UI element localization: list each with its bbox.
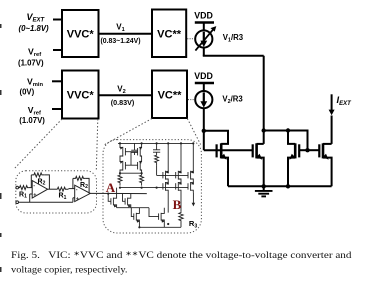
svg-text:Fig. 5. VIC: ∗VVC and ∗∗VC d: Fig. 5. VIC: ∗VVC and ∗∗VC denote the vo…: [11, 251, 352, 262]
svg-text:IEXT: IEXT: [337, 94, 353, 107]
M2 channel bar: [255, 143, 258, 158]
svg-text:+: +: [33, 193, 36, 199]
svg-text:R1: R1: [19, 191, 27, 199]
P row2 c1: [166, 182, 169, 184]
input stub Vref2: [52, 108, 62, 110]
M4 gate lead: [308, 149, 320, 151]
resistor R2b: [73, 176, 86, 180]
arrow head out current: [192, 203, 196, 207]
M1 source path: [221, 158, 228, 187]
svg-text:voltage copier, respectively.: voltage copier, respectively.: [11, 265, 128, 275]
out current arrow: [192, 193, 194, 204]
gate line row1: [157, 174, 189, 176]
opamp U2: [75, 185, 91, 201]
P row1 c2: [178, 170, 181, 172]
dotted link CS2: [188, 99, 195, 101]
zoom line VC left: [104, 119, 152, 146]
svg-text:VC**: VC**: [157, 29, 182, 41]
svg-text:VC**: VC**: [158, 90, 183, 102]
mid wire NMOS: [117, 207, 149, 209]
svg-text:R2: R2: [80, 182, 88, 190]
svg-text:(0.83~1.24V): (0.83~1.24V): [100, 38, 140, 45]
M2 source arrow: [256, 154, 262, 160]
wire CS1 to right: [203, 55, 264, 57]
CS2 wire down to node X1: [203, 108, 205, 131]
T_c group: [131, 208, 134, 217]
zoom line VC right: [187, 119, 200, 145]
wire cap col down: [156, 166, 158, 176]
svg-text:V1: V1: [116, 22, 124, 33]
resistor Ra: [118, 173, 122, 185]
wire to opamp2: [69, 188, 75, 190]
T_d group: [149, 208, 159, 217]
dashed box VVC detail: [16, 171, 97, 213]
M3 drain path: [288, 131, 295, 144]
svg-text:(0~1.8V): (0~1.8V): [19, 24, 50, 33]
ground rail: [228, 185, 332, 187]
cap column stub: [156, 143, 158, 149]
P row2 c2: [178, 182, 181, 184]
svg-text:V1/R3: V1/R3: [223, 33, 244, 43]
CS2 inner arrow: [203, 92, 205, 102]
svg-text:R2: R2: [38, 178, 46, 186]
svg-text:Vref: Vref: [28, 105, 41, 117]
svg-text:VVC*: VVC*: [67, 29, 95, 41]
IEXT wire upper: [331, 94, 333, 110]
T_b group: [123, 194, 126, 202]
M1 gate node vertical: [203, 131, 205, 150]
M1 gate bar: [216, 144, 218, 157]
zoom dashed lines: [14, 119, 201, 171]
opamp U1: [32, 181, 47, 198]
Q3: [120, 160, 123, 163]
CS2 arrowhead: [200, 101, 207, 107]
svg-text:Vref: Vref: [28, 47, 41, 59]
svg-text:R1: R1: [59, 193, 67, 201]
M4 source path: [323, 158, 332, 187]
svg-text:VDD: VDD: [194, 71, 213, 81]
svg-text:V2/R3: V2/R3: [222, 94, 243, 104]
svg-text:(0V): (0V): [20, 88, 35, 97]
M2 drain hook: [257, 143, 264, 145]
svg-text:V2: V2: [117, 85, 125, 96]
svg-text:Vmin: Vmin: [27, 77, 43, 89]
node mirror2 left: [262, 128, 266, 132]
plus stub opamp1: [30, 193, 33, 195]
resistor R3: [179, 212, 183, 228]
M1 channel bar: [220, 143, 223, 158]
resistor Rc: [155, 152, 159, 165]
node gate2: [305, 148, 309, 152]
bottom wire: [139, 226, 181, 228]
node mirror2 mid: [286, 128, 290, 132]
svg-text:(1.07V): (1.07V): [18, 59, 44, 68]
svg-text:B: B: [173, 197, 182, 212]
top wire mirror2: [264, 131, 308, 151]
M2 gate bar: [252, 144, 254, 157]
M2 source path: [257, 158, 264, 187]
node rail2: [286, 184, 290, 188]
M3 gate bar: [298, 144, 300, 157]
M3 source path: [288, 158, 295, 187]
wire down to mirror: [263, 56, 265, 144]
zoom line VVC left: [14, 119, 63, 170]
detail dots: [119, 142, 121, 144]
col verticals: [167, 143, 169, 171]
terminal in1: [16, 186, 19, 189]
M3 gate lead: [299, 149, 307, 151]
block VC1: [152, 10, 186, 58]
Q1: [120, 143, 123, 147]
block VC2: [152, 71, 187, 119]
svg-text:(0.83V): (0.83V): [111, 98, 135, 107]
block VVC2: [62, 71, 99, 119]
svg-text:+: +: [76, 196, 79, 202]
M1 source arrow: [221, 154, 227, 160]
resistor R1b: [57, 187, 68, 191]
VDD1 rail bar: [195, 21, 214, 23]
resistor R2a: [31, 173, 44, 177]
P row1 c3: [191, 170, 194, 172]
IEXT wire lower: [331, 116, 333, 144]
feedback right leg 2: [86, 178, 89, 193]
svg-text:R3: R3: [189, 219, 197, 229]
gate line M1-M2: [204, 149, 253, 151]
Q4: [140, 160, 141, 163]
CS1 inner arrow: [203, 32, 205, 42]
resistor Rb: [140, 173, 144, 185]
zoom line VVC right: [96, 119, 98, 171]
node X1: [202, 129, 206, 133]
svg-text:-: -: [33, 183, 35, 189]
dashed box VC detail: [103, 140, 201, 233]
capacitor C plates: [153, 149, 160, 151]
svg-text:VDD: VDD: [194, 11, 213, 21]
M1 drain hook: [204, 131, 228, 144]
block VVC1: [62, 10, 99, 57]
input stub VEXT: [53, 19, 62, 21]
input stub Vmin: [52, 80, 62, 82]
output1 wire: [48, 188, 58, 190]
P row2 c3: [191, 182, 194, 184]
input stub Vref1: [53, 49, 62, 51]
plus stub opamp2: [73, 197, 75, 199]
terminal in2: [16, 201, 19, 204]
M4 channel bar: [322, 143, 325, 158]
node wire left: [120, 172, 142, 174]
top rail: [118, 142, 194, 144]
output2 wire to A: [90, 192, 147, 194]
node rail1: [262, 184, 266, 188]
bottom wire: [19, 201, 73, 203]
opamp signs: [33, 183, 79, 203]
left edge scan marks: [0, 24, 2, 272]
M4 drain path: [323, 143, 332, 145]
CS1 wire down: [203, 48, 205, 56]
wire to opamp1: [29, 187, 32, 189]
svg-text:-: -: [76, 187, 78, 193]
T_a group: [108, 194, 111, 202]
VDD1 stub: [203, 23, 205, 31]
wire V1: [99, 33, 153, 35]
feedback right leg 1: [44, 175, 49, 189]
svg-text:VEXT: VEXT: [27, 12, 46, 24]
svg-text:A: A: [106, 180, 116, 195]
M4 gate bar: [318, 144, 320, 157]
IEXT arrowhead: [329, 110, 335, 116]
cross vertical: [130, 152, 132, 166]
MOSFET bars: [217, 143, 323, 158]
mos cap stub: [134, 143, 136, 150]
Q2: [140, 143, 141, 147]
current source CS1 circle: [195, 30, 212, 47]
ground symbol bars: [255, 191, 273, 197]
plus leg opamp2: [72, 198, 74, 202]
CS1 arrowhead: [200, 41, 207, 47]
dotted link CS1: [187, 38, 194, 40]
wire V2: [99, 94, 153, 96]
mid wire: [119, 187, 188, 189]
svg-text:(1.07V): (1.07V): [19, 116, 45, 125]
VDD2 rail bar: [195, 82, 214, 84]
M3 channel bar: [294, 143, 297, 158]
M4 source arrow: [323, 154, 329, 160]
CS1 diagonal adjust arrow: [195, 26, 216, 50]
ground stub: [263, 186, 265, 190]
current source CS2 circle: [195, 91, 212, 108]
feedback node vert 2: [72, 178, 74, 188]
plus leg opamp1: [29, 194, 31, 202]
detail transistor arrows: [120, 147, 123, 150]
feedback node vert 1: [30, 175, 32, 188]
svg-text:VVC*: VVC*: [67, 90, 95, 102]
P row1 c1: [166, 170, 169, 172]
resistor R1a: [19, 186, 29, 190]
VDD2 stub: [203, 83, 205, 91]
M3 source arrow: [289, 154, 295, 160]
